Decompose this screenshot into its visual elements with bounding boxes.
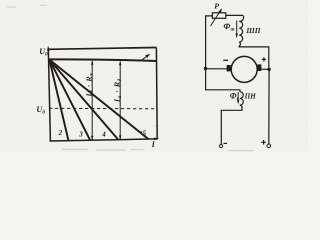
right brush — [257, 64, 261, 71]
plus terminal circle — [267, 144, 271, 148]
curve 1 (natural characteristic) — [49, 59, 156, 61]
plus sign at armature — [262, 57, 266, 61]
plus terminal sign — [261, 140, 266, 145]
coil PN (series winding) — [240, 92, 243, 105]
graph frame top border — [48, 48, 156, 50]
left brush — [227, 65, 231, 71]
graph frame right border — [155, 48, 158, 140]
minus terminal circle — [220, 144, 223, 147]
wire D1 down to series winding — [206, 69, 240, 92]
svg-text:4: 4 — [101, 130, 106, 138]
wire ShO down and right to node D2 — [239, 46, 269, 68]
wire D1 to left brush — [206, 68, 227, 70]
coil ShO (shunt winding) — [239, 16, 243, 46]
wire D2 down to plus terminal — [268, 69, 270, 143]
arrow pointer to curve 1 — [141, 54, 150, 61]
characteristic line 4 — [49, 60, 118, 140]
svg-text:3: 3 — [78, 130, 83, 138]
characteristic line 2 — [49, 60, 68, 141]
svg-text:ШП: ШП — [245, 26, 260, 35]
digit 5 with leading dash — [140, 130, 146, 138]
axis Y (voltage axis with arrow) — [47, 46, 50, 141]
faint scan smudges — [7, 5, 254, 152]
characteristic line 5 — [49, 60, 148, 139]
dashed level line Ud — [49, 107, 157, 110]
svg-text:Р: Р — [214, 1, 219, 10]
rheostat P body — [212, 13, 225, 18]
axis X (current axis with arrow) — [50, 138, 160, 142]
dimension line A (Ia*Ra drop) — [91, 60, 93, 141]
rheostat arrow — [211, 8, 223, 26]
svg-text:Iя · Rя: Iя · Rя — [84, 73, 94, 98]
wire PN down-left to minus terminal — [221, 105, 242, 144]
wire rheostat to coil ShO — [226, 14, 243, 16]
node D2 (right junction dot) — [267, 68, 270, 71]
wire D1 up to rheostat — [206, 16, 213, 69]
svg-text:Iя · Rд: Iя · Rд — [113, 78, 123, 103]
flux arrow Phi_sh — [236, 21, 238, 39]
svg-text:2: 2 — [58, 129, 63, 137]
node D1 (left junction dot) — [204, 67, 207, 70]
wire right brush to D2 — [261, 68, 269, 70]
minus terminal sign — [224, 142, 228, 144]
minus sign at armature — [223, 59, 228, 61]
paper background — [0, 0, 308, 152]
characteristic line 3 — [49, 60, 90, 140]
svg-text:ПН: ПН — [244, 93, 257, 101]
dimension line B (Ia*Rd drop) — [119, 61, 121, 141]
flux arrow Phi_c — [237, 92, 239, 104]
svg-text:5: 5 — [143, 130, 147, 138]
armature circle — [231, 56, 257, 82]
